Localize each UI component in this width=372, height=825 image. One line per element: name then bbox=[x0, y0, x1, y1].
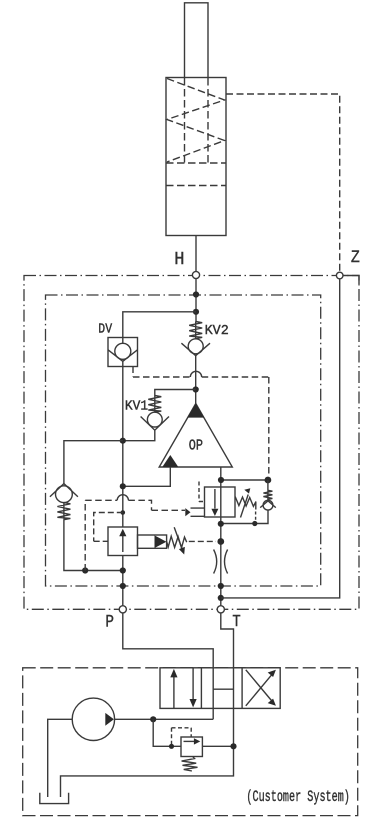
reducing valve spring arrow bbox=[174, 527, 185, 554]
wire Z to T bbox=[221, 279, 340, 598]
directional valve cross arrows bbox=[246, 670, 276, 706]
customer system border bbox=[23, 668, 358, 816]
pilot line to relief valve (dashed) bbox=[85, 500, 185, 570]
customer relief pilot (dashed) bbox=[172, 728, 192, 747]
relief pilot arrow bbox=[185, 508, 204, 516]
node T line 1 bbox=[218, 521, 224, 527]
hop-over arc at KV2 line bbox=[190, 371, 201, 377]
OP lower-left element bbox=[162, 455, 178, 467]
wire H line down bbox=[195, 279, 197, 322]
relief valve arrow bbox=[211, 489, 218, 516]
svg-text:OP: OP bbox=[189, 437, 203, 454]
node branch DV/KV2 bbox=[193, 309, 199, 315]
op-amp OP triangle bbox=[159, 404, 232, 468]
node drain bbox=[252, 521, 257, 526]
wire branch to DV bbox=[123, 312, 196, 344]
bypass check valve wire bbox=[267, 480, 269, 490]
wire OP right out / T line through relief valve bbox=[220, 467, 222, 606]
orifice bbox=[214, 550, 228, 574]
wire OP left out bbox=[123, 467, 171, 486]
pilot drain DV to relief (dashed) bbox=[133, 367, 269, 480]
node relief tee bbox=[150, 716, 156, 722]
node T return bbox=[230, 743, 236, 749]
svg-text:(Customer System): (Customer System) bbox=[246, 788, 350, 806]
node OP left junction bbox=[120, 483, 126, 489]
svg-text:Z: Z bbox=[351, 248, 360, 268]
node T line 2 bbox=[217, 538, 224, 545]
node KV1 junction bbox=[120, 438, 126, 444]
check valve left branch wire bbox=[64, 441, 123, 484]
check valve KV2 ball bbox=[188, 339, 203, 354]
check valve KV1 spring bbox=[148, 396, 161, 413]
wire pump outlet bbox=[115, 718, 214, 720]
pilot line reducing valve (dashed) bbox=[94, 513, 123, 542]
svg-text:T: T bbox=[232, 612, 240, 631]
wire P to valve bbox=[123, 613, 213, 719]
pilot line cylinder to Z bbox=[226, 94, 340, 272]
outer manifold border bbox=[24, 276, 359, 610]
svg-text:KV2: KV2 bbox=[205, 323, 229, 339]
wire pump suction bbox=[48, 719, 72, 797]
cylinder spring bbox=[167, 79, 225, 163]
check valve KV1 ball bbox=[147, 412, 162, 427]
relief spring drain (dashed) bbox=[255, 512, 257, 524]
pressure reducing valve box bbox=[108, 527, 138, 556]
svg-text:DV: DV bbox=[98, 321, 112, 337]
reducing valve arrow bbox=[119, 529, 126, 552]
node relief pilot bbox=[169, 744, 174, 749]
svg-text:H: H bbox=[174, 250, 184, 270]
node P inner border bbox=[120, 583, 126, 589]
bypass check valve seat bbox=[260, 501, 276, 508]
pump bbox=[72, 698, 114, 740]
customer relief valve wire in bbox=[153, 719, 181, 746]
wire KV2 to OP bbox=[195, 356, 197, 404]
pressure relief valve box bbox=[205, 487, 236, 517]
wire relief out bbox=[202, 745, 233, 747]
cylinder rod hidden lines bbox=[185, 78, 209, 163]
check valve left ball bbox=[56, 486, 73, 503]
node Z junction bbox=[218, 595, 224, 601]
directional valve left arrows bbox=[170, 668, 196, 709]
directional valve center connector bbox=[213, 688, 233, 690]
wire check valve bottom bbox=[221, 510, 268, 523]
reducing valve solenoid bbox=[138, 535, 167, 548]
outer border corner stub at Z bbox=[343, 276, 359, 285]
wire KV1 down bbox=[123, 430, 155, 441]
wire cylinder to H bbox=[195, 236, 197, 272]
relief valve top wire bbox=[221, 479, 268, 481]
relief valve local pilot (dashed) bbox=[199, 482, 205, 502]
pilot drain spring side (dashed) bbox=[189, 540, 216, 542]
wire branch to KV1 bbox=[155, 390, 196, 396]
directional valve body bbox=[160, 668, 280, 709]
svg-text:P: P bbox=[105, 613, 114, 633]
port Z bbox=[336, 272, 343, 279]
cylinder piston lines bbox=[166, 163, 226, 186]
node T inner border bbox=[218, 583, 224, 589]
svg-text:KV1: KV1 bbox=[125, 399, 148, 415]
check valve DV seat bbox=[108, 350, 138, 362]
node relief inlet bbox=[218, 477, 224, 483]
customer relief valve box bbox=[181, 737, 202, 757]
customer relief spring bbox=[182, 757, 198, 771]
check valve DV ball bbox=[115, 343, 131, 359]
OP apex element bbox=[187, 404, 204, 418]
cylinder rod bbox=[185, 3, 209, 78]
hop-over arc at P line bbox=[117, 495, 128, 501]
check valve KV2 spring bbox=[189, 322, 202, 339]
node P line junction bbox=[120, 567, 126, 573]
node pilot drain junction bbox=[82, 567, 88, 573]
check valve DV box bbox=[108, 338, 138, 367]
port H bbox=[192, 271, 199, 278]
relief spring arrow bbox=[241, 488, 251, 517]
bypass check valve ball bbox=[263, 500, 273, 510]
reducing valve spring bbox=[167, 536, 187, 548]
wire T to valve bbox=[61, 613, 234, 797]
node check valve top bbox=[265, 477, 272, 484]
node pilot small bbox=[121, 510, 126, 515]
check valve left seat bbox=[50, 484, 78, 497]
wire main P line bbox=[122, 361, 124, 605]
customer relief valve arrow bbox=[184, 738, 201, 744]
node KV1 branch bbox=[193, 386, 199, 392]
cylinder Z1 body bbox=[166, 78, 226, 236]
tank bbox=[40, 793, 69, 804]
wire left branch down bbox=[64, 520, 123, 571]
port T bbox=[217, 606, 224, 613]
check valve KV2 seat bbox=[181, 343, 210, 356]
inner manifold border bbox=[46, 295, 321, 586]
check valve KV1 seat bbox=[141, 417, 169, 431]
bypass check valve spring bbox=[263, 490, 272, 500]
relief valve spring bbox=[235, 497, 256, 510]
check valve left spring bbox=[57, 503, 70, 520]
port P bbox=[119, 606, 126, 613]
node H inner border bbox=[193, 291, 199, 297]
